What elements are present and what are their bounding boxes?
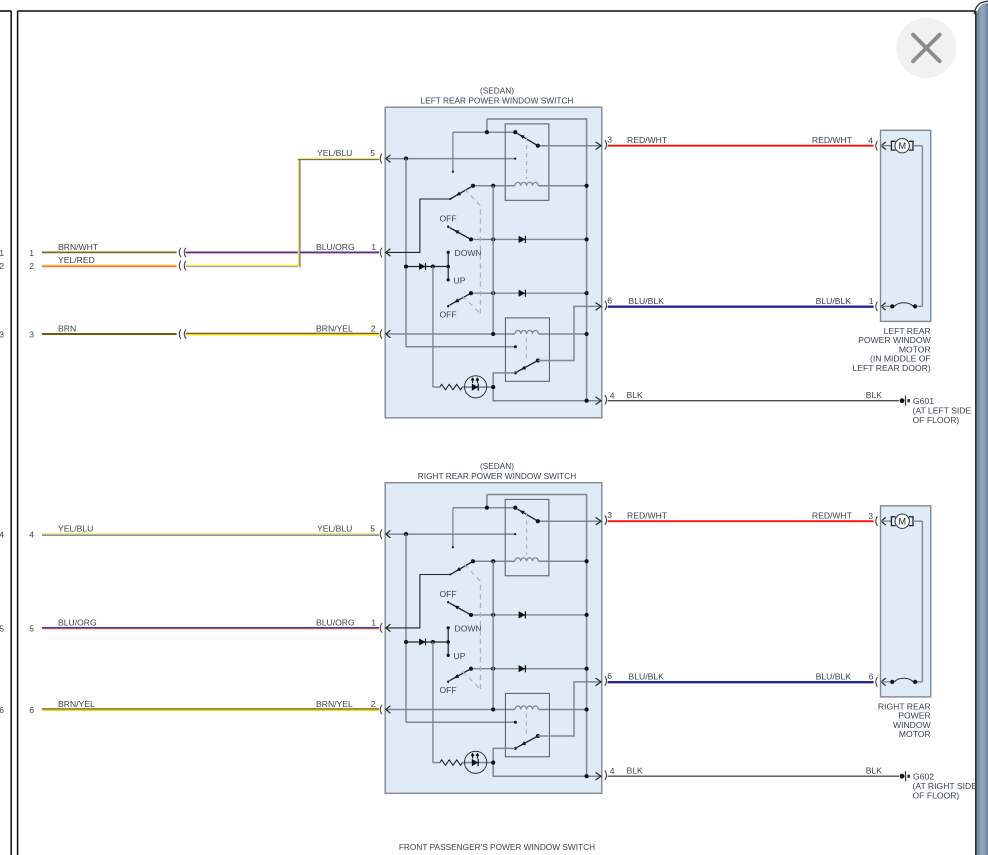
node: relay1 common junction	[485, 506, 489, 510]
relay K2 box	[505, 693, 549, 756]
motor pin 3 connector	[876, 517, 878, 526]
wire: pin 2 / coil 2 row	[385, 709, 515, 711]
svg-text:5: 5	[370, 524, 375, 534]
pin 4 connector	[605, 771, 607, 780]
node: relay1 common junction	[485, 130, 489, 134]
svg-text:YEL/BLU: YEL/BLU	[317, 148, 352, 158]
ground G602	[900, 774, 905, 779]
svg-text:6: 6	[607, 296, 612, 306]
pin 4 connector	[605, 395, 607, 404]
svg-text:2: 2	[29, 261, 34, 271]
pin 5 arrow	[386, 155, 391, 163]
svg-text:BLK: BLK	[627, 766, 644, 776]
pin 3 arrow	[596, 142, 602, 150]
pin 5 arrow	[386, 530, 391, 538]
wire: K2 contact branch	[493, 748, 602, 776]
svg-text:4: 4	[610, 766, 615, 776]
svg-text:LEFT REAR DOOR): LEFT REAR DOOR)	[853, 363, 931, 373]
main diagram left border	[17, 11, 19, 855]
svg-text:UP: UP	[454, 651, 466, 661]
svg-text:RED/WHT: RED/WHT	[627, 135, 668, 145]
wire: pin 5 internal	[385, 158, 515, 160]
svg-text:BLU/BLK: BLU/BLK	[629, 296, 665, 306]
power window motor box	[881, 506, 931, 697]
wire: coil1 row	[473, 185, 515, 187]
svg-text:BLK: BLK	[627, 390, 644, 400]
pin 3 connector	[605, 140, 607, 149]
wire: resistor to LED	[462, 762, 493, 764]
relay K2 box	[505, 318, 549, 381]
svg-text:BLU/BLK: BLU/BLK	[629, 671, 665, 681]
svg-text:1: 1	[371, 618, 376, 628]
diode D1	[519, 236, 526, 243]
wire BLK to ground	[608, 400, 899, 402]
svg-text:YEL/BLU: YEL/BLU	[58, 524, 93, 534]
pin 1 connector	[380, 623, 382, 632]
switch S1 (up contact)	[450, 561, 473, 574]
svg-text:BRN/WHT: BRN/WHT	[58, 242, 99, 252]
svg-text:YEL/RED: YEL/RED	[58, 255, 95, 265]
ground G601	[900, 398, 905, 403]
wire: pin 3 internal	[538, 145, 602, 147]
pin 1 arrow	[386, 624, 391, 632]
wire: motor bottom jumper	[881, 305, 893, 307]
wire: pin 5 internal	[385, 533, 515, 535]
node: selector junctions	[404, 640, 408, 644]
wire: S1 contact to pin 1	[385, 575, 450, 628]
svg-text:M: M	[898, 516, 906, 526]
pin 2 arrow	[386, 706, 391, 714]
node: diode row2 junctions	[469, 667, 473, 671]
svg-text:5: 5	[0, 623, 4, 633]
pin 2 connector	[380, 329, 382, 338]
motor M1	[881, 145, 892, 147]
wire: selector feed	[406, 641, 448, 643]
svg-text:2: 2	[0, 261, 4, 271]
node: motor jumper terminals	[890, 304, 894, 308]
relay K1 coil	[515, 558, 538, 562]
svg-text:BRN/YEL: BRN/YEL	[316, 699, 353, 709]
svg-text:OF FLOOR): OF FLOOR)	[913, 415, 960, 425]
svg-text:YEL/BLU: YEL/BLU	[317, 524, 352, 534]
pin 6 arrow	[596, 678, 602, 686]
svg-text:G601: G601	[913, 396, 934, 406]
wire: relay 1 common feed	[453, 131, 515, 133]
svg-text:BLU/BLK: BLU/BLK	[816, 296, 852, 306]
svg-text:BLU/ORG: BLU/ORG	[316, 617, 355, 627]
relay K1 switch	[513, 506, 517, 510]
svg-text:1: 1	[371, 242, 376, 252]
svg-text:3: 3	[607, 510, 612, 520]
wire: diode row 2	[471, 292, 587, 294]
relay K2 switch	[536, 734, 540, 738]
relay K2 coil	[515, 706, 538, 710]
inline connector row2	[179, 261, 181, 270]
svg-text:BLU/ORG: BLU/ORG	[58, 617, 97, 627]
switch S1 (up contact)	[450, 186, 473, 199]
wire BLK to ground	[608, 775, 899, 777]
motor feed arrows	[881, 517, 886, 525]
svg-text:6: 6	[869, 672, 874, 682]
pin 6 connector	[605, 301, 607, 310]
node: coil1 junctions	[471, 184, 475, 188]
relay K2 switch	[536, 358, 540, 362]
svg-text:G602: G602	[913, 771, 934, 781]
main diagram top border	[18, 10, 975, 12]
wire: K2 contact branch	[493, 373, 602, 401]
wire: top bus	[487, 118, 587, 120]
svg-text:1: 1	[29, 248, 34, 258]
node: selector junctions	[404, 264, 408, 268]
svg-text:OFF: OFF	[440, 214, 457, 224]
adjacent page right border	[10, 11, 12, 855]
pin 4 arrow	[596, 772, 602, 780]
relay K1 coil	[515, 182, 538, 186]
wire YEL/BLU (row 2 to riser)	[186, 265, 299, 267]
svg-text:2: 2	[371, 699, 376, 709]
pin 6 arrow	[596, 303, 602, 311]
relay K2 coil	[515, 330, 538, 334]
wire: mid bus x493	[492, 186, 494, 334]
selector common stem	[447, 252, 449, 280]
svg-text:2: 2	[371, 324, 376, 334]
svg-text:BLU/ORG: BLU/ORG	[316, 242, 355, 252]
wire BRN/YEL (row 3 right)	[186, 332, 380, 334]
diode D1	[519, 611, 526, 618]
svg-text:5: 5	[29, 623, 34, 633]
wire BRN (row 3 left)	[42, 333, 177, 335]
svg-text:(SEDAN): (SEDAN)	[480, 461, 514, 471]
node: diode row1 junctions	[469, 237, 473, 241]
svg-text:BLK: BLK	[866, 766, 883, 776]
motor pin 1 connector	[876, 302, 878, 311]
wire: pin 2 / coil 2 row	[385, 333, 515, 335]
relay K1 mechanical link	[526, 137, 528, 179]
node: diode row1 junctions	[469, 613, 473, 617]
selector DOWN contact	[447, 626, 450, 629]
switch S2 OFF upper	[447, 226, 449, 228]
adjacent page top border	[0, 10, 11, 12]
pin 3 connector	[605, 516, 607, 525]
inline connector row3	[179, 329, 181, 338]
pin 1 connector	[380, 248, 382, 257]
selector common stem	[447, 628, 449, 656]
wire: left bus to relay 2 common	[405, 159, 407, 347]
wire: S1 contact to pin 1	[385, 199, 450, 252]
wire: diode row 1	[471, 238, 587, 240]
pin 2 connector	[380, 705, 382, 714]
wire: resistor to LED	[462, 386, 493, 388]
switch S2 OFF upper	[447, 601, 449, 603]
diode D2	[419, 263, 425, 270]
mechanical gang link (dashed)	[465, 189, 481, 314]
wire: LED branch bus	[432, 267, 434, 388]
wire: mid bus x493	[492, 561, 494, 709]
diode D3	[519, 290, 526, 297]
wire YEL/BLU riser	[298, 158, 300, 267]
svg-text:3: 3	[29, 329, 34, 339]
svg-text:6: 6	[29, 705, 34, 715]
svg-text:FRONT PASSENGER'S POWER WINDOW: FRONT PASSENGER'S POWER WINDOW SWITCH	[399, 842, 595, 852]
node: LED output junction	[491, 385, 495, 389]
wire RED/WHT to motor	[608, 520, 874, 522]
svg-text:OFF: OFF	[440, 685, 457, 695]
pin 4 arrow	[596, 397, 602, 405]
svg-text:BRN/YEL: BRN/YEL	[58, 699, 95, 709]
pin 2 arrow	[386, 330, 391, 338]
svg-text:RED/WHT: RED/WHT	[627, 511, 668, 521]
svg-text:5: 5	[370, 148, 375, 158]
resistor R1	[440, 760, 463, 765]
node: motor jumper terminals	[890, 680, 894, 684]
wire BLU/BLK to motor	[608, 681, 874, 683]
node: LED output junction	[491, 761, 495, 765]
pin 5 connector	[380, 154, 382, 163]
wire: motor loop	[913, 145, 922, 147]
selector UP contact	[447, 654, 450, 657]
svg-text:3: 3	[0, 329, 4, 339]
switch body box LEFT REAR POWER WINDOW SWITCH	[385, 107, 602, 418]
pin 6 connector	[605, 676, 607, 685]
selector DOWN contact	[447, 251, 450, 254]
node: diode row2 junctions	[469, 291, 473, 295]
wire YEL/BLU (row 4)	[42, 533, 379, 535]
resistor R1	[440, 384, 463, 389]
wire: diode row 2	[471, 668, 587, 670]
svg-text:BRN/YEL: BRN/YEL	[316, 323, 353, 333]
svg-text:BLU/BLK: BLU/BLK	[816, 671, 852, 681]
pin 5 connector	[380, 529, 382, 538]
node: pin5 bus junction	[404, 157, 408, 161]
wire BLU/ORG (row 1 right)	[186, 251, 380, 253]
selector UP contact	[447, 278, 450, 281]
LED indicator	[465, 751, 487, 773]
motor feed arrows	[881, 142, 886, 150]
wire: top bus	[487, 494, 587, 496]
svg-text:1: 1	[869, 296, 874, 306]
wire BLU/ORG (row 5)	[42, 627, 379, 629]
relay K1 box	[505, 124, 549, 200]
svg-text:3: 3	[868, 511, 873, 521]
svg-text:1: 1	[0, 248, 4, 258]
svg-text:RIGHT REAR POWER WINDOW SWITCH: RIGHT REAR POWER WINDOW SWITCH	[418, 471, 576, 481]
wire BRN/YEL (row 6)	[42, 708, 379, 710]
wire: motor loop	[913, 520, 922, 522]
motor pin 6 connector	[876, 677, 878, 686]
svg-text:4: 4	[868, 135, 873, 145]
diode D2	[419, 639, 425, 646]
relay K1 switch	[513, 130, 517, 134]
svg-text:3: 3	[607, 135, 612, 145]
svg-text:BLK: BLK	[866, 390, 883, 400]
wire: relay 1 common feed	[453, 507, 515, 509]
wire: left bus to relay 2 common	[405, 534, 407, 722]
switch S3 OFF lower	[447, 681, 449, 683]
close button	[896, 18, 956, 78]
motor M1	[881, 520, 892, 522]
node: coil1 junctions	[471, 559, 475, 563]
node: pin5 bus junction	[404, 532, 408, 536]
diode D3	[519, 665, 526, 672]
switch S3 OFF lower	[447, 305, 449, 307]
wire BLU/BLK to motor	[608, 305, 874, 307]
pin 1 arrow	[386, 249, 391, 257]
wire: K2 arm to pin 6	[538, 306, 602, 360]
svg-text:DOWN: DOWN	[455, 248, 482, 258]
relay K1 box	[505, 499, 549, 575]
svg-text:4: 4	[29, 530, 34, 540]
svg-text:(SEDAN): (SEDAN)	[480, 85, 514, 95]
relay K2 mechanical link	[525, 713, 527, 735]
wire YEL/BLU (top row to pin 5)	[298, 158, 379, 160]
wire: pin 3 internal	[538, 520, 602, 522]
svg-text:M: M	[898, 141, 906, 151]
wire: motor bottom jumper	[881, 681, 893, 683]
switch body box RIGHT REAR POWER WINDOW SWITCH	[385, 483, 602, 794]
pin 3 arrow	[596, 517, 602, 525]
svg-text:DOWN: DOWN	[455, 624, 482, 634]
svg-text:MOTOR: MOTOR	[899, 729, 931, 739]
wire YEL/RED (row 2 left)	[42, 265, 177, 267]
LED indicator	[465, 376, 487, 398]
svg-text:RED/WHT: RED/WHT	[812, 135, 853, 145]
wire RED/WHT to motor	[608, 145, 874, 147]
wire: LED branch bus	[432, 642, 434, 763]
svg-text:LEFT REAR POWER WINDOW SWITCH: LEFT REAR POWER WINDOW SWITCH	[421, 96, 574, 106]
main diagram right border	[975, 11, 977, 855]
mechanical gang link (dashed)	[465, 565, 481, 690]
svg-text:UP: UP	[454, 275, 466, 285]
svg-text:4: 4	[0, 530, 4, 540]
svg-text:RED/WHT: RED/WHT	[812, 511, 853, 521]
svg-text:4: 4	[610, 391, 615, 401]
wire: K2 arm to pin 6	[538, 682, 602, 736]
svg-text:OF FLOOR): OF FLOOR)	[913, 790, 960, 800]
relay K2 mechanical link	[525, 338, 527, 360]
svg-text:6: 6	[0, 705, 4, 715]
power window motor box	[881, 130, 931, 321]
inline connector row1	[179, 248, 181, 257]
wire BRN/WHT (row 1 left)	[42, 251, 177, 253]
svg-text:OFF: OFF	[440, 310, 457, 320]
svg-text:6: 6	[607, 671, 612, 681]
svg-text:OFF: OFF	[440, 589, 457, 599]
wire: selector feed	[406, 266, 448, 268]
svg-text:BRN: BRN	[58, 323, 76, 333]
relay K1 mechanical link	[526, 513, 528, 555]
wire: diode row 1	[471, 614, 587, 616]
motor pin 4 connector	[876, 141, 878, 150]
wire: coil1 row	[473, 560, 515, 562]
